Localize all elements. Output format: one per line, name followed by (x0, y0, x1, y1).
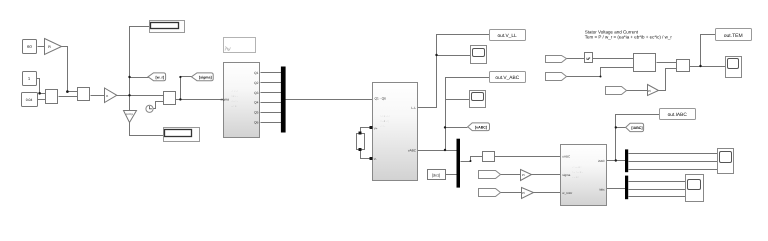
svg-text:. : .: -:: . : .: -: (231, 90, 238, 93)
svg-text:uABC: uABC (562, 155, 571, 159)
svg-text:· : ·- ·= :: · : ·- ·= : (572, 166, 582, 169)
svg-text:· ·- = :: · ·- = : (572, 176, 579, 179)
svg-text:Q2: Q2 (254, 81, 259, 85)
svg-text:Q6: Q6 (254, 120, 259, 124)
svg-text:: = :- ·: : = :- · (231, 95, 238, 98)
svg-text:Q1 - Q6: Q1 - Q6 (375, 97, 387, 101)
svg-text:[iABC]: [iABC] (631, 126, 642, 130)
svg-text:60: 60 (27, 44, 32, 49)
svg-text:w_rotor: w_rotor (562, 191, 572, 195)
svg-text:iabc: iabc (599, 187, 605, 191)
svg-text:: ·: = ·:· :: : ·: = ·:· : (380, 115, 390, 118)
svg-text:Q5: Q5 (254, 110, 259, 114)
svg-text:[w_r]: [w_r] (156, 75, 165, 79)
svg-text:Pi: Pi (522, 173, 525, 177)
svg-text:out.V_ABC: out.V_ABC (495, 75, 519, 81)
svg-text:· : : ·: · : : · (380, 125, 385, 128)
svg-text:out.IABC: out.IABC (668, 112, 688, 118)
svg-text:0.04: 0.04 (26, 98, 33, 102)
svg-text:vABC: vABC (408, 148, 417, 152)
svg-text:u²: u² (586, 56, 591, 61)
svg-text:V-: V- (374, 157, 377, 161)
svg-text:L-L: L-L (411, 106, 416, 110)
svg-text:Q4: Q4 (254, 101, 259, 105)
svg-text:Pi: Pi (48, 45, 51, 49)
svg-text:Tem = P / w_r = (ea*ia + eb*ib: Tem = P / w_r = (ea*ia + eb*ib + ec*ic) … (585, 34, 673, 39)
svg-text:.: -· : ·: .: -· : · (231, 100, 238, 103)
svg-text:K: K (106, 94, 108, 98)
svg-text:out.V_LL: out.V_LL (497, 33, 517, 39)
svg-text:·- : =: ·- : = (231, 105, 237, 108)
svg-text:iABC: iABC (598, 159, 606, 163)
svg-text:[3x1]: [3x1] (432, 173, 440, 177)
svg-text:[vABC]: [vABC] (475, 125, 487, 129)
svg-text:: -· : ·· = ·: : -· : ·· = · (572, 171, 583, 174)
svg-text:Q3: Q3 (254, 91, 259, 95)
svg-text:sigma: sigma (221, 98, 230, 102)
svg-text:[sigma]: [sigma] (199, 75, 212, 79)
svg-text:sigma: sigma (562, 173, 570, 177)
svg-text:Pi: Pi (648, 89, 651, 93)
svg-text:out.TEM: out.TEM (724, 33, 743, 39)
svg-text:Q1: Q1 (254, 71, 259, 75)
svg-text:: :· d ·: ;: : :· d ·: ; (380, 120, 389, 123)
svg-text:V+: V+ (374, 126, 378, 130)
svg-text:Pi: Pi (522, 191, 525, 195)
svg-text:180/pi: 180/pi (126, 113, 133, 116)
